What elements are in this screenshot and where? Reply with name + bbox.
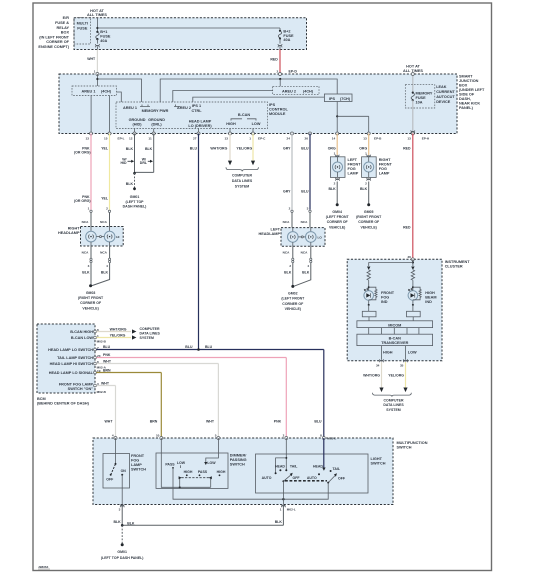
MICOM box — [357, 321, 433, 328]
link between bulbs left — [298, 236, 305, 238]
svg-text:AREU 1: AREU 1 — [82, 90, 96, 94]
wire YEL/ORG B-CAN low — [236, 134, 255, 166]
svg-text:GM03: GM03 — [86, 291, 96, 295]
svg-text:MEMORY: MEMORY — [416, 92, 433, 96]
svg-text:EP-B: EP-B — [374, 136, 382, 140]
pin at SJB top (RED) — [279, 73, 282, 76]
inner box pin stubs — [135, 129, 254, 134]
memory fuse sub-box — [405, 85, 435, 108]
svg-text:FRONT: FRONT — [348, 163, 362, 167]
svg-text:BLU: BLU — [314, 419, 322, 423]
wire BLK left fog to ground — [328, 182, 337, 204]
IPS (7CH) box — [324, 94, 352, 102]
svg-text:(OR ORG): (OR ORG) — [74, 199, 91, 203]
svg-text:RIGHT: RIGHT — [68, 227, 80, 231]
svg-text:HIGH: HIGH — [184, 470, 193, 474]
dimmer input BRN path — [161, 438, 210, 488]
svg-text:LOW: LOW — [252, 122, 261, 126]
svg-text:GRY: GRY — [283, 146, 291, 150]
svg-text:COMPUTER: COMPUTER — [140, 327, 161, 331]
pin at SJB top (WHT) — [96, 73, 99, 76]
leak current autocut device label — [436, 85, 455, 104]
svg-text:IPS: IPS — [329, 97, 336, 101]
svg-text:SYSTEM: SYSTEM — [235, 184, 249, 188]
junction dot HID/DRL ground — [133, 172, 136, 175]
wire WHT fuse to SJB — [87, 50, 97, 75]
svg-text:LO: LO — [318, 235, 323, 239]
svg-text:DEVICE: DEVICE — [436, 100, 451, 104]
svg-text:SIDE OF: SIDE OF — [459, 93, 475, 97]
svg-text:WHT: WHT — [103, 359, 112, 363]
svg-text:1: 1 — [94, 70, 96, 74]
svg-text:SWITCH: SWITCH — [397, 446, 412, 450]
pin 26 cluster top — [407, 255, 414, 261]
svg-text:AUTO: AUTO — [307, 476, 317, 480]
svg-text:HEAD: HEAD — [275, 465, 285, 469]
svg-text:LAMP: LAMP — [348, 172, 359, 176]
svg-text:27: 27 — [193, 136, 197, 140]
svg-text:2: 2 — [276, 70, 278, 74]
svg-text:FUSE &: FUSE & — [55, 21, 69, 25]
svg-text:(4CH): (4CH) — [303, 90, 314, 94]
svg-text:LIGHT: LIGHT — [371, 457, 383, 461]
left headlamp box — [281, 228, 325, 247]
svg-text:BCM: BCM — [37, 397, 46, 401]
svg-text:RIGHT: RIGHT — [379, 158, 391, 162]
svg-text:(DRL): (DRL) — [151, 122, 162, 126]
svg-text:BOX: BOX — [61, 31, 70, 35]
svg-text:LAMP: LAMP — [131, 463, 142, 467]
svg-text:ORG: ORG — [328, 146, 336, 150]
svg-text:FRONT: FRONT — [131, 454, 145, 458]
svg-text:40A: 40A — [283, 38, 290, 42]
connector C101 (right headlamp, PNK) — [82, 207, 93, 227]
connector left headlamp GRY — [283, 207, 294, 228]
internal wire AREU2 control — [173, 91, 273, 103]
svg-text:(7CH): (7CH) — [340, 97, 351, 101]
svg-text:HEAD LAMP LO SIGNAL: HEAD LAMP LO SIGNAL — [49, 371, 94, 375]
svg-text:PNK: PNK — [274, 419, 282, 423]
svg-text:10: 10 — [156, 434, 160, 438]
svg-text:YEL/ORG: YEL/ORG — [110, 333, 126, 337]
svg-text:NEAR KICK: NEAR KICK — [459, 102, 480, 106]
svg-text:AUTOCUT: AUTOCUT — [436, 95, 455, 99]
svg-text:TAIL LAMP SWITCH: TAIL LAMP SWITCH — [57, 356, 93, 360]
hot at all times (left) — [87, 9, 107, 17]
svg-text:26: 26 — [305, 136, 309, 140]
svg-text:BLK: BLK — [126, 147, 134, 151]
svg-text:ENGINE COMPT): ENGINE COMPT) — [38, 45, 69, 49]
svg-text:GM01: GM01 — [130, 195, 140, 199]
svg-text:SWITCH: SWITCH — [230, 463, 245, 467]
svg-text:NCA: NCA — [100, 220, 107, 224]
connector left headlamp BLU — [301, 207, 312, 228]
svg-text:GM02: GM02 — [288, 291, 298, 295]
wire WHT/ORG cluster — [363, 362, 384, 392]
svg-text:NCA: NCA — [82, 250, 89, 254]
brace computer data lines — [226, 167, 258, 171]
svg-text:12: 12 — [129, 136, 133, 140]
svg-text:DRL: DRL — [140, 161, 148, 165]
inner control box — [116, 102, 268, 129]
svg-text:MICOM: MICOM — [388, 323, 401, 327]
svg-text:LEFT: LEFT — [348, 158, 358, 162]
svg-text:M02-B: M02-B — [97, 340, 107, 344]
svg-text:HOT AT: HOT AT — [90, 9, 104, 13]
wire ORG right fog — [359, 134, 370, 158]
wire GRY — [283, 134, 292, 210]
svg-text:TAIL: TAIL — [290, 465, 298, 469]
svg-text:OFF: OFF — [293, 476, 301, 480]
svg-text:HIGH: HIGH — [217, 470, 226, 474]
svg-text:EP-H: EP-H — [422, 136, 430, 140]
svg-text:13: 13 — [86, 136, 90, 140]
wires BLK to ground left headlamp — [284, 263, 311, 287]
svg-text:BLK: BLK — [127, 521, 135, 525]
BCM pins — [94, 330, 97, 387]
wire BLU (head lamp hi) — [301, 134, 310, 210]
dimmer pass output — [173, 468, 328, 499]
svg-text:(OR ORG): (OR ORG) — [74, 150, 91, 154]
svg-text:FRONT FOG LAMP: FRONT FOG LAMP — [59, 383, 94, 387]
svg-text:RED: RED — [270, 57, 278, 61]
svg-text:MODULE: MODULE — [269, 112, 286, 116]
svg-text:NCA: NCA — [301, 250, 308, 254]
label computer data lines system (bcm) — [140, 327, 161, 340]
relay AREU 1 (4CH) — [72, 86, 117, 96]
svg-text:DATA LINES: DATA LINES — [140, 331, 161, 335]
internal bus wire (B+1 net) — [96, 74, 141, 102]
svg-text:BLU: BLU — [301, 146, 309, 150]
svg-text:14: 14 — [332, 136, 336, 140]
svg-text:SYSTEM: SYSTEM — [386, 408, 400, 412]
svg-text:HIGH: HIGH — [383, 351, 393, 355]
svg-text:24: 24 — [287, 136, 291, 140]
wires IPS outputs — [336, 102, 369, 134]
svg-text:35: 35 — [400, 364, 404, 368]
svg-text:ORG: ORG — [359, 146, 367, 150]
svg-text:1: 1 — [88, 207, 90, 211]
svg-text:BLU: BLU — [185, 345, 193, 349]
svg-text:FRONT: FRONT — [379, 163, 393, 167]
svg-text:M02-B: M02-B — [97, 390, 107, 394]
svg-text:PASSING: PASSING — [230, 458, 247, 462]
high/low outputs — [376, 346, 417, 368]
label smart junction box — [459, 75, 485, 111]
ground GM01 bottom (left top dash panel) — [101, 543, 144, 560]
wire BLK (W/ HID) — [120, 134, 134, 174]
E/R fuse & relay box — [74, 18, 307, 50]
wire YEL — [101, 134, 109, 210]
svg-text:CURRENT: CURRENT — [436, 90, 455, 94]
front fog indicator branch — [362, 267, 394, 321]
svg-text:GM01: GM01 — [117, 550, 127, 554]
multi fuse sub-box — [74, 18, 91, 44]
svg-text:OFF: OFF — [106, 478, 114, 482]
wire ORG left fog — [328, 134, 339, 158]
svg-text:WHT/ORG: WHT/ORG — [363, 373, 380, 377]
svg-text:J98364: J98364 — [38, 565, 49, 569]
svg-text:BLK: BLK — [360, 187, 368, 191]
svg-text:4: 4 — [307, 264, 309, 268]
svg-text:TAIL: TAIL — [333, 467, 341, 471]
dimmer contact labels — [165, 461, 225, 476]
svg-text:VEHICLE): VEHICLE) — [285, 307, 301, 311]
svg-text:HOT AT: HOT AT — [406, 65, 420, 69]
wire BLK from light switch — [122, 507, 283, 526]
wire PNK tail lamp switch — [96, 353, 286, 438]
fog switch contacts — [106, 438, 126, 488]
wires AREU1 outputs — [91, 92, 121, 134]
connector below right headlamp — [82, 246, 111, 268]
svg-text:YEL: YEL — [101, 146, 109, 150]
svg-text:PNK: PNK — [103, 353, 111, 357]
wire BLK right fog to ground — [360, 182, 369, 204]
svg-text:B+2: B+2 — [283, 30, 290, 34]
wire BLK dashed to ground — [121, 525, 123, 544]
svg-text:BLU: BLU — [103, 345, 111, 349]
svg-text:NCA: NCA — [301, 220, 308, 224]
svg-text:2: 2 — [283, 434, 285, 438]
svg-text:26: 26 — [407, 255, 411, 259]
svg-text:HEADLAMP: HEADLAMP — [258, 232, 280, 236]
wire memory fuse to pin 13 — [411, 100, 415, 133]
relay AREU 2 (4CH) — [273, 86, 319, 94]
svg-text:YEL: YEL — [101, 196, 109, 200]
svg-text:DASH,: DASH, — [459, 97, 471, 101]
instrument cluster box — [347, 259, 442, 360]
bulb right headlamp HI — [104, 227, 119, 247]
svg-text:8: 8 — [320, 434, 322, 438]
svg-text:M02-L: M02-L — [287, 507, 296, 511]
svg-text:2: 2 — [334, 181, 336, 185]
wire BLK dashed to ground — [126, 173, 135, 188]
brace computer data lines (cluster) — [373, 393, 412, 397]
wire WHT head lamp hi switch — [96, 359, 218, 438]
svg-text:HEADLAMP: HEADLAMP — [58, 231, 80, 235]
svg-text:LOW: LOW — [408, 351, 417, 355]
svg-text:(BEHIND CENTER OF DASH): (BEHIND CENTER OF DASH) — [37, 402, 90, 406]
svg-text:BOX: BOX — [459, 84, 468, 88]
svg-text:B-CAN: B-CAN — [238, 113, 250, 117]
label IPS control module — [269, 103, 288, 116]
ground GM05 (right front corner of vehicle) — [356, 203, 382, 229]
svg-text:RED: RED — [403, 146, 411, 150]
svg-text:NCA: NCA — [283, 250, 290, 254]
svg-text:BLK: BLK — [302, 270, 310, 274]
svg-text:BLK: BLK — [275, 520, 283, 524]
svg-text:LAMP: LAMP — [379, 172, 390, 176]
svg-text:DATA LINES: DATA LINES — [232, 179, 253, 183]
SJB pin number labels — [86, 136, 430, 140]
svg-text:WHT/ORG: WHT/ORG — [110, 327, 127, 331]
ground GM01 (left top dash panel) — [123, 187, 147, 208]
svg-text:1: 1 — [280, 507, 282, 511]
svg-text:5: 5 — [215, 434, 217, 438]
svg-text:B+1: B+1 — [100, 30, 107, 34]
svg-text:BLU: BLU — [301, 189, 309, 193]
svg-text:RED: RED — [403, 225, 411, 229]
svg-text:(RIGHT FRONT: (RIGHT FRONT — [78, 296, 104, 300]
fuse B+1 40A — [96, 18, 111, 44]
wire YEL/ORG cluster — [388, 362, 407, 392]
svg-text:13: 13 — [407, 136, 411, 140]
svg-text:AUTO: AUTO — [262, 476, 272, 480]
svg-text:FUSE: FUSE — [77, 27, 88, 31]
light switch left group — [262, 438, 301, 493]
wire BLU head lamp lo switch — [96, 345, 323, 438]
svg-text:3: 3 — [88, 264, 90, 268]
svg-text:JUNCTION: JUNCTION — [459, 79, 479, 83]
svg-text:FOG: FOG — [379, 167, 387, 171]
B-CAN transceiver box — [357, 334, 433, 345]
svg-text:11: 11 — [148, 136, 152, 140]
SJB bottom pins — [90, 132, 415, 135]
svg-text:ON: ON — [121, 469, 127, 473]
svg-text:SWITCH: SWITCH — [371, 461, 386, 465]
svg-text:WHT: WHT — [105, 419, 114, 423]
svg-text:13: 13 — [363, 136, 367, 140]
wire BLU head lamp lo driver — [190, 134, 199, 350]
svg-text:4: 4 — [106, 264, 108, 268]
svg-text:LO (DRIVER): LO (DRIVER) — [188, 124, 212, 128]
svg-text:CTRL: CTRL — [191, 109, 202, 113]
svg-text:CORNER OF: CORNER OF — [358, 220, 380, 224]
svg-text:B-CAN HIGH: B-CAN HIGH — [70, 330, 93, 334]
svg-text:SWITCH: SWITCH — [131, 468, 146, 472]
bus wire B+1 to B+2 — [97, 27, 280, 29]
bulb left headlamp LO — [306, 228, 323, 247]
svg-text:GROUND: GROUND — [129, 118, 146, 122]
svg-text:EP-L: EP-L — [118, 136, 125, 140]
svg-text:FOG: FOG — [348, 167, 356, 171]
svg-text:LEFT: LEFT — [271, 228, 281, 232]
svg-text:FOG: FOG — [381, 295, 389, 299]
wires BLK to ground right headlamp — [82, 263, 109, 286]
right front fog lamp — [362, 157, 393, 178]
svg-text:INSTRUMENT: INSTRUMENT — [445, 260, 471, 264]
svg-text:2: 2 — [289, 207, 291, 211]
svg-text:PASS: PASS — [198, 470, 208, 474]
BCM box — [37, 324, 95, 393]
svg-text:SYSTEM: SYSTEM — [140, 336, 154, 340]
svg-text:AREU 1: AREU 1 — [123, 106, 137, 110]
hot at all times (right) — [403, 65, 423, 74]
svg-text:EP-D: EP-D — [289, 70, 298, 74]
BCM row labels — [48, 330, 94, 391]
pin 2 below left fog — [334, 178, 340, 186]
ground GM02 (left front corner of vehicle) — [281, 285, 305, 311]
memory fuse feed — [411, 73, 414, 93]
svg-text:MULTI: MULTI — [77, 21, 88, 25]
fog switch output pin 3 — [119, 488, 125, 511]
svg-text:WHT: WHT — [206, 419, 215, 423]
svg-text:BLK: BLK — [113, 520, 121, 524]
svg-text:DASH PANEL): DASH PANEL) — [123, 205, 147, 209]
svg-text:WHT/ORG: WHT/ORG — [210, 146, 227, 150]
svg-text:B-CAN: B-CAN — [389, 337, 401, 341]
wire RED fuse B+2 to SJB — [270, 50, 297, 75]
svg-text:B-CAN LOW: B-CAN LOW — [71, 336, 94, 340]
svg-text:COMPUTER: COMPUTER — [232, 174, 253, 178]
wire BLK from fog switch — [113, 507, 134, 527]
svg-text:MULTIFUNCTION: MULTIFUNCTION — [397, 441, 428, 445]
fuse B+2 40A — [278, 28, 294, 44]
svg-text:13: 13 — [225, 136, 229, 140]
svg-text:SMART: SMART — [459, 75, 473, 79]
multifunction switch box — [93, 438, 393, 505]
MICOM to transceiver ticks — [369, 328, 419, 335]
svg-text:HIGH: HIGH — [226, 122, 236, 126]
svg-text:HID: HID — [120, 161, 127, 165]
dimmer input WHT path — [204, 438, 218, 465]
svg-text:(LEFT FRONT: (LEFT FRONT — [281, 297, 305, 301]
svg-text:BLK: BLK — [284, 270, 292, 274]
svg-text:4: 4 — [112, 434, 114, 438]
svg-text:40A: 40A — [100, 39, 107, 43]
svg-text:(4CH): (4CH) — [101, 90, 112, 94]
svg-text:NCA: NCA — [82, 220, 89, 224]
svg-text:LOW: LOW — [177, 461, 186, 465]
svg-text:2: 2 — [289, 264, 291, 268]
svg-text:ALL TIMES: ALL TIMES — [87, 13, 107, 17]
svg-text:34: 34 — [376, 364, 380, 368]
svg-text:IPS: IPS — [269, 103, 276, 107]
bulb left headlamp HI — [288, 228, 299, 247]
svg-text:HI: HI — [116, 235, 119, 239]
svg-text:E/R: E/R — [63, 16, 70, 20]
svg-text:VEHICLE): VEHICLE) — [82, 306, 98, 310]
svg-text:PASS: PASS — [165, 463, 175, 467]
svg-text:BLK: BLK — [82, 270, 90, 274]
svg-text:NCA: NCA — [283, 220, 290, 224]
svg-text:15: 15 — [104, 136, 108, 140]
svg-text:BLU: BLU — [205, 345, 213, 349]
svg-text:HEAD LAMP LO SWITCH: HEAD LAMP LO SWITCH — [48, 348, 93, 352]
left front fog lamp — [330, 157, 361, 178]
svg-text:(UNDER LEFT: (UNDER LEFT — [459, 88, 485, 92]
svg-text:HEAD LAMP HI SWITCH: HEAD LAMP HI SWITCH — [50, 362, 94, 366]
svg-text:AREU 2: AREU 2 — [282, 90, 296, 94]
link between bulbs — [96, 236, 104, 238]
svg-text:IPS 1: IPS 1 — [192, 104, 201, 108]
svg-text:DATA LINES: DATA LINES — [383, 403, 404, 407]
svg-text:(IN LEFT FRONT: (IN LEFT FRONT — [39, 35, 69, 39]
svg-text:GM05: GM05 — [364, 210, 374, 214]
svg-text:GROUND: GROUND — [148, 118, 165, 122]
svg-text:GM04: GM04 — [332, 210, 342, 214]
svg-text:VEHICLE): VEHICLE) — [361, 225, 377, 229]
wire PNK — [74, 134, 91, 210]
label E/R fuse box — [38, 16, 69, 49]
ground GM03 (right front corner of vehicle) — [78, 284, 104, 310]
wire WHT/ORG bcm b-can high — [96, 327, 136, 333]
svg-text:WHT: WHT — [101, 381, 110, 385]
fuse MEMORY 10A — [411, 92, 433, 105]
internal bus wire (B+2 net) — [160, 78, 337, 102]
svg-text:TRANSCEIVER: TRANSCEIVER — [381, 341, 408, 345]
svg-text:SWITCH "ON": SWITCH "ON" — [68, 387, 94, 391]
svg-text:(LEFT FRONT: (LEFT FRONT — [326, 215, 350, 219]
svg-text:(RIGHT FRONT: (RIGHT FRONT — [356, 215, 382, 219]
svg-text:VEHICLE): VEHICLE) — [329, 225, 345, 229]
svg-text:CORNER OF: CORNER OF — [282, 302, 304, 306]
svg-text:CONTROL: CONTROL — [269, 108, 288, 112]
svg-text:(HID): (HID) — [132, 122, 142, 126]
svg-text:3: 3 — [119, 507, 121, 511]
svg-text:CORNER OF: CORNER OF — [327, 220, 349, 224]
svg-text:(LEFT TOP DASH PANEL): (LEFT TOP DASH PANEL) — [101, 556, 144, 560]
